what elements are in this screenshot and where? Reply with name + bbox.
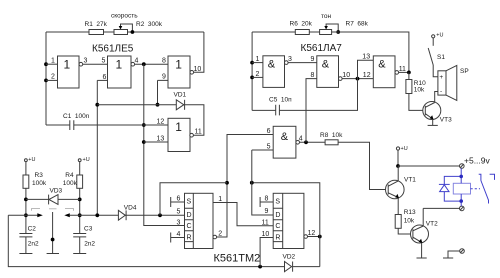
svg-text:D: D (275, 212, 280, 219)
node gate1 pin1 (44, 62, 48, 66)
svg-text:R8 10k: R8 10k (320, 132, 343, 139)
wire vertical left rail to gate1 inputs and C1 (45, 32, 47, 125)
svg-text:VD4: VD4 (124, 205, 137, 212)
node output4 pin8 branch (304, 140, 308, 144)
svg-text:2n2: 2n2 (84, 241, 95, 248)
speaker SP (438, 71, 446, 95)
wire R13 to VT2 base (398, 228, 413, 234)
wire feedback top-left from gate1 inputs to R1 (46, 31, 89, 33)
node R2 wiper junction (131, 30, 135, 34)
node R7 wiper junction (336, 30, 340, 34)
svg-text:D: D (187, 212, 192, 219)
svg-text:1: 1 (51, 58, 55, 65)
resistor R6 (295, 30, 309, 35)
ground VT3 (428, 124, 438, 126)
svg-text:100k: 100k (32, 180, 47, 187)
wire gate3 output pin10 up to feedback (194, 32, 204, 72)
svg-text:К561ЛЕ5: К561ЛЕ5 (92, 44, 134, 55)
wire left vertical to gate A inputs and C5 (251, 32, 253, 110)
svg-text:+U: +U (83, 157, 90, 163)
svg-text:6: 6 (267, 128, 271, 135)
logic gate DD1.3 (168, 56, 190, 88)
svg-text:1: 1 (175, 58, 182, 72)
switch S1 (432, 38, 434, 46)
ground VT2 (417, 257, 427, 259)
svg-text:10k: 10k (404, 218, 415, 225)
wire gate A pin1 (252, 62, 263, 64)
wire FF2 output 12 to vertical (308, 236, 320, 238)
logic gate DD3.3 (373, 56, 395, 88)
flip-flop DD2.1 (185, 193, 214, 248)
svg-text:VD2: VD2 (283, 254, 296, 261)
svg-text:8: 8 (162, 58, 166, 65)
node gate pin5 branch (250, 181, 254, 185)
ground bar C2 (19, 253, 32, 255)
node VD1 anode line junction (95, 103, 99, 107)
node output 12 (318, 235, 322, 239)
node gate A pin1 (250, 61, 254, 65)
svg-text:8: 8 (265, 195, 269, 202)
svg-text:11: 11 (195, 128, 202, 135)
svg-text:R6 20k: R6 20k (290, 21, 313, 28)
node VT1 collector supply (396, 164, 400, 168)
svg-text:11: 11 (262, 219, 269, 226)
logic gate DD3.4 (273, 126, 296, 158)
wire FF1 Q-bar pin2 up to gate pin6 (217, 135, 274, 238)
wire gate1 output pin3 to gate2 pin5 (83, 63, 108, 65)
svg-text:+U: +U (28, 157, 35, 163)
wire ЛА7 top feedback rail (252, 31, 295, 33)
relay node top (459, 175, 463, 179)
wire FF1 output pin1 Q to FF2 clock pin11 (213, 203, 273, 226)
svg-text:1: 1 (175, 120, 182, 134)
diode VD4 (118, 210, 125, 220)
wire vertical output12 net (252, 183, 320, 267)
pin 8 S stub with bar (260, 197, 273, 207)
svg-text:1: 1 (116, 58, 123, 72)
wire S1 to speaker plus (433, 65, 438, 77)
resistor R10 (406, 80, 412, 94)
svg-text:6: 6 (177, 195, 181, 202)
svg-text:2: 2 (218, 230, 222, 237)
power +U terminal S1 (432, 35, 435, 38)
wire VD1 line (97, 105, 204, 136)
svg-text:11: 11 (399, 66, 406, 73)
wire VD2 cathode up to FF2 output 12 (293, 266, 320, 268)
svg-text:-: - (440, 88, 442, 95)
wire sensor line left with arrow electrode (8, 214, 38, 216)
relay node bottom (459, 199, 463, 203)
wire pin13 loop (358, 60, 374, 78)
svg-text:4: 4 (135, 58, 139, 65)
svg-text:1: 1 (218, 196, 222, 203)
svg-text:S1: S1 (437, 54, 445, 61)
node R4 VD3 (78, 198, 82, 202)
svg-text:12: 12 (363, 72, 371, 79)
node sensor FF1 D feedback (158, 213, 162, 217)
relay flyback diode (444, 176, 461, 201)
wire gate1 input pin 1 (46, 63, 58, 65)
gate2 output bubble (131, 62, 135, 66)
relay K1 coil (439, 168, 495, 206)
wire R6 to R7 (309, 31, 319, 33)
power +U terminal right (78, 159, 81, 162)
svg-text:3: 3 (177, 220, 181, 227)
svg-text:13: 13 (362, 54, 370, 61)
wire R2 to feedback vertical (128, 31, 204, 33)
svg-text:&: & (268, 59, 276, 71)
FF2 output pin12 bubble (304, 235, 308, 239)
svg-text:+U: +U (401, 146, 408, 152)
wire supply rail to +5..9v terminal (398, 165, 460, 167)
wire gate C output to node (399, 71, 409, 73)
capacitor C3 (73, 234, 86, 237)
svg-text:9: 9 (311, 56, 315, 63)
wire +U down to collector rail (397, 150, 399, 166)
pin 4 R stub with bar (171, 233, 185, 243)
resistor R4 (77, 175, 83, 188)
node R3 sensor line (24, 213, 28, 217)
transistor VT3 (423, 102, 441, 120)
svg-text:3: 3 (288, 56, 292, 63)
wire gate A pin2 (252, 76, 263, 78)
svg-text:12: 12 (157, 118, 165, 125)
svg-text:R2 300k: R2 300k (136, 21, 163, 28)
logic gate DD1.4 (168, 118, 190, 151)
wire left rail down and bottom common rail (8, 215, 284, 266)
resistor R8 (325, 140, 338, 145)
svg-text:4: 4 (299, 136, 303, 143)
node R4 sensor line (78, 213, 82, 217)
svg-text:3: 3 (84, 58, 88, 65)
svg-text:5: 5 (177, 209, 181, 216)
svg-text:10k: 10k (414, 87, 425, 94)
node gate A pin2 (250, 76, 254, 80)
wire gate A out to gate B pin9 (288, 62, 317, 64)
svg-text:R: R (275, 234, 280, 241)
svg-text:VD1: VD1 (174, 92, 187, 99)
resistor R3 (23, 175, 29, 188)
node C1 pin12 junction (142, 123, 146, 127)
wire VD3 row (26, 198, 80, 200)
svg-text:4: 4 (177, 231, 181, 238)
ground terminal bottom right (460, 249, 465, 254)
wire gate1 input pin 2 (46, 79, 58, 81)
relay contact (479, 174, 481, 180)
node pin9 to VD1 line (156, 103, 160, 107)
wire gate B output to gate C pin12 (342, 78, 373, 80)
wire +U to R4 (79, 162, 81, 175)
node gate1 pin2 (44, 79, 48, 83)
wire gate3 pin9 stub (158, 80, 169, 104)
capacitor C2 (19, 234, 32, 237)
svg-text:C1 100n: C1 100n (63, 113, 90, 120)
capacitor C1 (46, 124, 144, 126)
resistor R1 (89, 30, 104, 35)
logic gate DD3.2 (317, 56, 339, 88)
potentiometer R2 (114, 30, 128, 35)
gate DD3.4 output bubble (296, 141, 300, 145)
svg-text:S: S (187, 199, 192, 206)
svg-text:100k: 100k (63, 180, 78, 187)
svg-text:R4: R4 (65, 172, 74, 179)
power +U terminal left (25, 159, 28, 162)
ground bar middle (47, 253, 59, 255)
svg-text:К561ЛА7: К561ЛА7 (301, 43, 343, 54)
wire R8 to VT1 base (338, 142, 388, 189)
svg-text:2: 2 (256, 71, 260, 78)
svg-text:C5 10п: C5 10п (269, 97, 292, 104)
capacitor C5 (276, 105, 280, 116)
svg-text:R13: R13 (404, 209, 416, 216)
wire C5 branch vertical (280, 79, 358, 111)
gate1 output bubble (79, 62, 83, 66)
node Qbar branch (225, 181, 229, 185)
svg-text:8: 8 (311, 72, 315, 79)
wire +U to R3 (25, 162, 27, 175)
diode VD3 (49, 195, 58, 205)
pin 10 R wire to bottom rail (260, 238, 273, 267)
svg-text:SP: SP (460, 68, 469, 75)
gate A output bubble (285, 61, 289, 65)
svg-text:13: 13 (157, 135, 165, 142)
R2 wiper arm (121, 24, 133, 32)
wire R10 to VT3 base (409, 94, 425, 111)
wire gate pin5 stub (252, 149, 273, 151)
node on middle electrode (51, 238, 55, 242)
svg-text:&: & (378, 59, 386, 71)
terminal output 2 (460, 206, 465, 211)
node gate2 output branch (142, 62, 146, 66)
svg-text:S: S (275, 199, 280, 206)
svg-text:тон: тон (321, 13, 332, 20)
wire R1 to R2 (104, 31, 115, 33)
svg-text:+: + (439, 74, 443, 81)
resistor R13 (395, 215, 401, 229)
sensor touch plate marks E1 (32, 209, 41, 211)
wire gate2 pin6 stub (97, 79, 107, 81)
svg-text:1: 1 (256, 56, 260, 63)
potentiometer R7 (320, 30, 332, 35)
gate3 output bubble (190, 71, 194, 75)
wire gate4 input pin 13 (144, 141, 168, 143)
svg-text:R3: R3 (35, 172, 44, 179)
diode VD1 (176, 100, 184, 110)
svg-text:VD3: VD3 (50, 187, 63, 194)
svg-text:К561ТМ2: К561ТМ2 (214, 253, 261, 265)
svg-text:10: 10 (262, 231, 270, 238)
svg-text:VT1: VT1 (404, 177, 416, 184)
gate B output bubble (339, 77, 343, 81)
transistor VT2 (411, 225, 429, 243)
node gate C output R10 (407, 71, 411, 75)
FF1 output pin2 bubble (213, 235, 217, 239)
svg-text:VT2: VT2 (426, 221, 438, 228)
R7 wiper arm (326, 24, 338, 32)
wire vertical gate2 output down to gate4 inputs and FF1 clock (144, 64, 185, 225)
logic gate DD3.1 (263, 56, 285, 88)
ground bar C3 (73, 253, 86, 255)
gate4 output bubble (190, 133, 194, 137)
wire pin5 vertical and FF2 D input (252, 150, 273, 215)
wire gate2 output pin4 to gate3 pin8 (135, 63, 168, 65)
logic gate DD1.1 (58, 56, 80, 88)
svg-text:R1 27k: R1 27k (85, 21, 108, 28)
wire top rail to gate C output (332, 32, 409, 72)
wire VT2 collector to output terminal (423, 207, 459, 209)
svg-text:C3: C3 (84, 226, 93, 233)
svg-text:+5...9v: +5...9v (464, 156, 491, 166)
svg-text:&: & (281, 131, 289, 143)
svg-text:2: 2 (51, 74, 55, 81)
relay actuation dashed link (471, 188, 481, 190)
gate C output bubble (395, 71, 399, 75)
svg-text:10: 10 (342, 72, 350, 79)
wire node to R10 (408, 72, 410, 79)
wire speaker minus to VT3 collector (435, 92, 438, 103)
svg-text:9: 9 (265, 208, 269, 215)
svg-text:R7 68k: R7 68k (346, 21, 369, 28)
svg-text:&: & (322, 59, 330, 71)
svg-text:2n2: 2n2 (28, 241, 39, 248)
svg-text:C: C (275, 223, 280, 230)
node FF2 R pin on bottom rail (258, 265, 262, 269)
wire gate4 input pin 12 (144, 124, 168, 126)
wire Qbar branch to D input (160, 183, 227, 216)
middle electrode wire to ground (52, 212, 54, 254)
svg-text:9: 9 (162, 74, 166, 81)
svg-text:1: 1 (64, 58, 71, 72)
svg-text:R: R (187, 234, 192, 241)
flip-flop DD2.2 (273, 193, 304, 248)
transistor VT1 (386, 180, 405, 199)
wire gate2 pin6 vertical down to sensor line (96, 80, 98, 215)
node output10 branch (356, 77, 360, 81)
node sensor gate2 pin6 (95, 213, 99, 217)
svg-text:скорость: скорость (111, 13, 138, 20)
diode VD2 (285, 262, 292, 272)
logic gate DD1.2 (108, 56, 132, 88)
terminal +5...9v (460, 164, 465, 169)
wire sensor line right with arrow electrode to FF1 D (64, 213, 70, 217)
wire output 4 to R8 (300, 141, 326, 143)
svg-text:5: 5 (267, 143, 271, 150)
wire R4 down to C3 (79, 188, 81, 233)
node R3 VD3 (24, 198, 28, 202)
wire R3 down to C2 (25, 188, 27, 233)
pin 6 S stub with bar (171, 197, 185, 207)
svg-text:5: 5 (102, 58, 106, 65)
power +U terminal VT1 (396, 147, 399, 150)
wire pin8 vertical up (306, 79, 317, 143)
node pin13 junction (142, 140, 146, 144)
svg-text:C: C (187, 223, 192, 230)
svg-text:C2: C2 (28, 226, 37, 233)
svg-text:12: 12 (308, 230, 316, 237)
svg-text:VT3: VT3 (440, 117, 452, 124)
svg-text:+U: +U (436, 33, 443, 39)
